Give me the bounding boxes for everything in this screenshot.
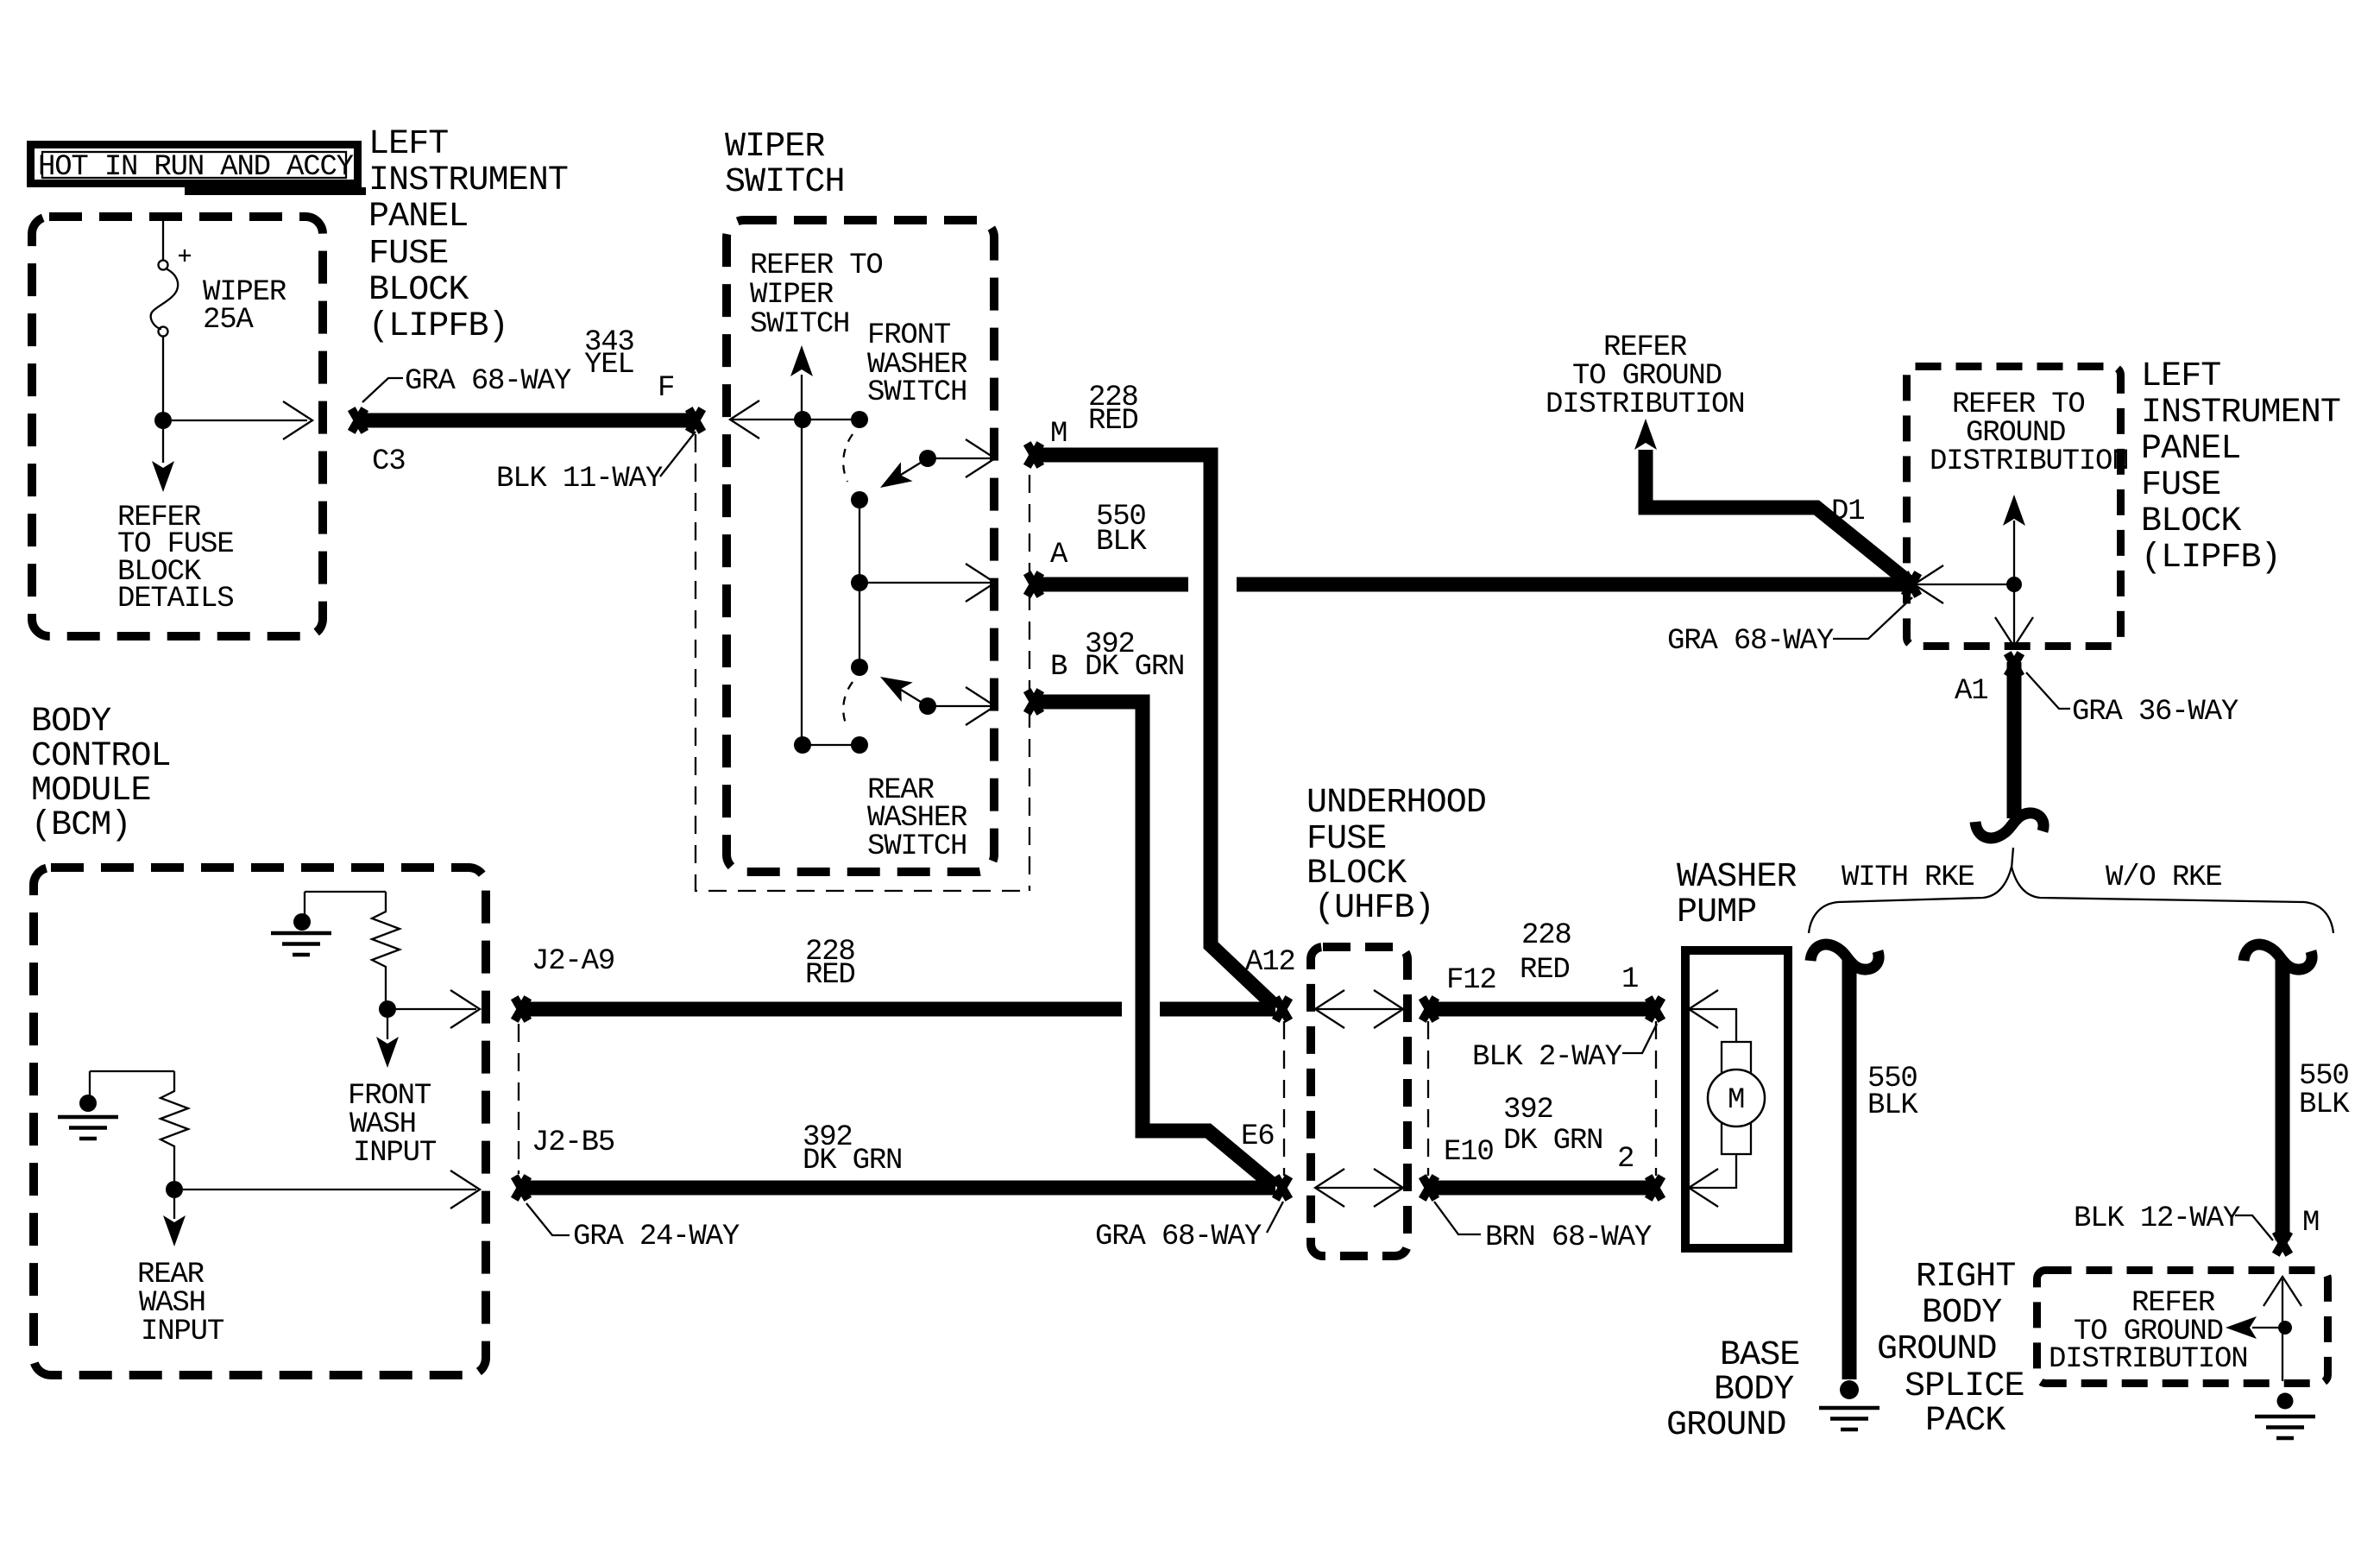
svg-text:INPUT: INPUT bbox=[353, 1137, 437, 1170]
svg-text:GROUND: GROUND bbox=[1666, 1406, 1786, 1445]
svg-text:WASHER: WASHER bbox=[1677, 858, 1797, 897]
svg-text:E10: E10 bbox=[1444, 1136, 1494, 1169]
svg-text:SWITCH: SWITCH bbox=[725, 163, 845, 202]
svg-text:A12: A12 bbox=[1245, 946, 1295, 979]
svg-text:DK GRN: DK GRN bbox=[1085, 651, 1184, 684]
svg-text:BLK 12-WAY: BLK 12-WAY bbox=[2074, 1202, 2240, 1235]
svg-text:BLOCK: BLOCK bbox=[368, 271, 469, 310]
svg-text:BLOCK: BLOCK bbox=[2141, 502, 2241, 541]
svg-text:J2-A9: J2-A9 bbox=[532, 945, 614, 978]
svg-text:LEFT: LEFT bbox=[2141, 357, 2220, 396]
svg-text:1: 1 bbox=[1621, 963, 1638, 996]
svg-text:W/O RKE: W/O RKE bbox=[2106, 861, 2221, 894]
svg-text:GROUND: GROUND bbox=[1877, 1330, 1997, 1369]
svg-text:FUSE: FUSE bbox=[1306, 820, 1386, 859]
svg-text:M: M bbox=[2302, 1207, 2319, 1240]
svg-text:J2-B5: J2-B5 bbox=[532, 1126, 614, 1159]
svg-text:REFER TO: REFER TO bbox=[750, 249, 883, 282]
svg-text:DISTRIBUTION: DISTRIBUTION bbox=[2049, 1343, 2247, 1376]
svg-text:E6: E6 bbox=[1241, 1120, 1274, 1153]
svg-text:UNDERHOOD: UNDERHOOD bbox=[1306, 784, 1486, 823]
svg-text:WIPER: WIPER bbox=[750, 279, 834, 312]
svg-text:SWITCH: SWITCH bbox=[867, 830, 966, 863]
svg-text:INSTRUMENT: INSTRUMENT bbox=[2141, 394, 2340, 432]
svg-text:SWITCH: SWITCH bbox=[867, 376, 966, 409]
svg-text:GRA 24-WAY: GRA 24-WAY bbox=[573, 1221, 740, 1253]
svg-text:(BCM): (BCM) bbox=[31, 806, 131, 845]
svg-text:RED: RED bbox=[805, 959, 855, 992]
svg-text:DISTRIBUTION: DISTRIBUTION bbox=[1546, 388, 1744, 421]
svg-text:D1: D1 bbox=[1831, 495, 1864, 528]
svg-text:PUMP: PUMP bbox=[1677, 893, 1756, 932]
svg-text:(LIPFB): (LIPFB) bbox=[368, 307, 508, 346]
svg-text:INPUT: INPUT bbox=[141, 1316, 224, 1348]
svg-text:YEL: YEL bbox=[584, 349, 634, 382]
svg-text:DISTRIBUTION: DISTRIBUTION bbox=[1930, 445, 2128, 478]
svg-text:A1: A1 bbox=[1955, 675, 1987, 708]
svg-text:GRA 68-WAY: GRA 68-WAY bbox=[405, 365, 571, 398]
svg-text:FUSE: FUSE bbox=[2141, 466, 2220, 505]
svg-text:DETAILS: DETAILS bbox=[117, 583, 233, 615]
svg-text:C3: C3 bbox=[372, 445, 405, 478]
svg-text:BODY: BODY bbox=[1922, 1294, 2002, 1333]
svg-text:GRA 68-WAY: GRA 68-WAY bbox=[1095, 1221, 1262, 1253]
svg-text:DK GRN: DK GRN bbox=[803, 1145, 902, 1177]
svg-text:BRN 68-WAY: BRN 68-WAY bbox=[1485, 1221, 1652, 1254]
svg-text:DK GRN: DK GRN bbox=[1503, 1125, 1602, 1158]
svg-text:PANEL: PANEL bbox=[2141, 430, 2241, 469]
svg-text:BODY: BODY bbox=[1714, 1371, 1794, 1410]
svg-text:BLK: BLK bbox=[2299, 1089, 2350, 1121]
svg-text:25A: 25A bbox=[203, 304, 254, 337]
svg-text:GRA 68-WAY: GRA 68-WAY bbox=[1667, 625, 1834, 658]
svg-text:MODULE: MODULE bbox=[31, 772, 151, 811]
svg-text:FUSE: FUSE bbox=[368, 235, 448, 274]
svg-text:B: B bbox=[1050, 651, 1067, 684]
svg-text:LEFT: LEFT bbox=[368, 125, 448, 164]
svg-text:RED: RED bbox=[1520, 954, 1570, 987]
svg-text:RED: RED bbox=[1088, 405, 1138, 438]
svg-text:HOT IN RUN AND ACCY: HOT IN RUN AND ACCY bbox=[38, 151, 354, 184]
svg-text:BODY: BODY bbox=[31, 703, 111, 741]
svg-text:PANEL: PANEL bbox=[368, 198, 469, 237]
svg-text:BLK 2-WAY: BLK 2-WAY bbox=[1472, 1041, 1622, 1074]
svg-text:RIGHT: RIGHT bbox=[1916, 1258, 2016, 1297]
svg-text:392: 392 bbox=[1503, 1094, 1553, 1126]
svg-text:WIPER: WIPER bbox=[725, 128, 825, 167]
svg-text:A: A bbox=[1050, 539, 1068, 571]
svg-text:F: F bbox=[658, 372, 674, 405]
svg-text:GRA 36-WAY: GRA 36-WAY bbox=[2072, 696, 2238, 729]
svg-text:SWITCH: SWITCH bbox=[750, 308, 849, 341]
svg-text:(UHFB): (UHFB) bbox=[1314, 889, 1434, 928]
svg-text:BLOCK: BLOCK bbox=[1306, 855, 1407, 893]
svg-text:INSTRUMENT: INSTRUMENT bbox=[368, 161, 568, 200]
svg-text:BLK 11-WAY: BLK 11-WAY bbox=[496, 463, 663, 495]
svg-text:PACK: PACK bbox=[1925, 1402, 2005, 1441]
svg-text:SPLICE: SPLICE bbox=[1905, 1367, 2024, 1406]
svg-text:FRONT: FRONT bbox=[867, 319, 951, 352]
svg-text:BLK: BLK bbox=[1867, 1089, 1918, 1122]
svg-text:(LIPFB): (LIPFB) bbox=[2141, 539, 2281, 577]
svg-text:228: 228 bbox=[1521, 919, 1571, 952]
svg-text:2: 2 bbox=[1617, 1143, 1634, 1176]
svg-text:WITH RKE: WITH RKE bbox=[1842, 861, 1974, 894]
svg-text:BLK: BLK bbox=[1096, 526, 1147, 558]
svg-text:BASE: BASE bbox=[1720, 1336, 1799, 1375]
svg-text:M: M bbox=[1050, 418, 1067, 451]
svg-text:M: M bbox=[1728, 1084, 1744, 1117]
svg-text:CONTROL: CONTROL bbox=[31, 737, 171, 776]
svg-text:F12: F12 bbox=[1446, 964, 1496, 997]
